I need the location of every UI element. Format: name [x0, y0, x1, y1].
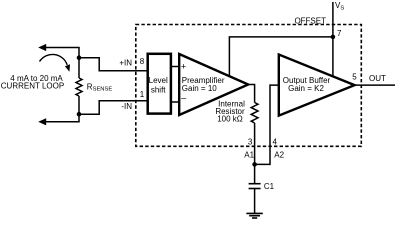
svg-text:CURRENT LOOP: CURRENT LOOP: [1, 82, 64, 91]
svg-text:+IN: +IN: [119, 58, 132, 67]
wire: resistor bottom to loop bottom: [46, 96, 79, 122]
svg-text:5: 5: [352, 72, 357, 81]
svg-text:C1: C1: [264, 182, 275, 191]
op-amp: preamplifier: [179, 54, 248, 115]
capacitor C1: [249, 183, 261, 185]
svg-text:+: +: [181, 62, 186, 72]
wire: OFFSET net (node 7 to preamp): [229, 37, 333, 77]
svg-text:VS: VS: [335, 1, 344, 11]
IC boundary (dashed box): [136, 25, 361, 147]
arrowhead: loop top (left): [38, 44, 46, 51]
svg-text:Gain = 10: Gain = 10: [182, 84, 217, 93]
svg-text:1: 1: [140, 90, 145, 99]
wire: +IN lead: [79, 58, 147, 71]
svg-text:RSENSE: RSENSE: [87, 82, 113, 92]
node: +sense junction: [77, 55, 82, 60]
wire: preamp output to internal resistor: [248, 85, 254, 103]
svg-text:shift: shift: [151, 86, 166, 95]
arrowhead: loop bottom (left): [38, 118, 46, 125]
svg-text:7: 7: [337, 29, 342, 38]
node 7: [331, 35, 336, 40]
svg-text:4: 4: [273, 138, 278, 147]
ground: [246, 212, 262, 214]
wire: current-loop top segment: [46, 48, 79, 79]
wire: OUT: [355, 84, 395, 86]
node: -sense junction: [77, 112, 82, 117]
resistor RSENSE: [76, 78, 82, 96]
svg-text:OFFSET: OFFSET: [294, 16, 326, 25]
wire: level shift to preamp (-): [171, 101, 179, 103]
svg-text:3: 3: [248, 138, 253, 147]
svg-text:Level: Level: [149, 76, 168, 85]
svg-text:100 kΩ: 100 kΩ: [217, 114, 243, 123]
svg-text:Gain = K2: Gain = K2: [288, 84, 324, 93]
wire: internal resistor to A1 node: [254, 123, 256, 164]
wire: node to capacitor: [254, 164, 256, 183]
svg-text:-IN: -IN: [121, 102, 132, 111]
svg-text:A1: A1: [244, 151, 254, 160]
wire: capacitor to ground: [254, 189, 256, 214]
wire: VS supply line: [332, 2, 334, 77]
svg-text:OUT: OUT: [369, 74, 386, 83]
op-amp: output buffer: [279, 55, 355, 116]
svg-text:A2: A2: [274, 151, 284, 160]
wire: -IN lead: [79, 101, 147, 114]
level shift block U1a: [148, 54, 171, 114]
wire: A2 to buffer input: [255, 85, 279, 164]
wire: level shift to preamp (+): [171, 66, 179, 68]
resistor: internal 100 k: [251, 103, 258, 124]
curved arrow: loop current direction: [40, 54, 68, 65]
node: A1/A2 junction: [252, 162, 257, 167]
svg-text:–: –: [181, 93, 186, 103]
svg-text:8: 8: [140, 57, 145, 66]
